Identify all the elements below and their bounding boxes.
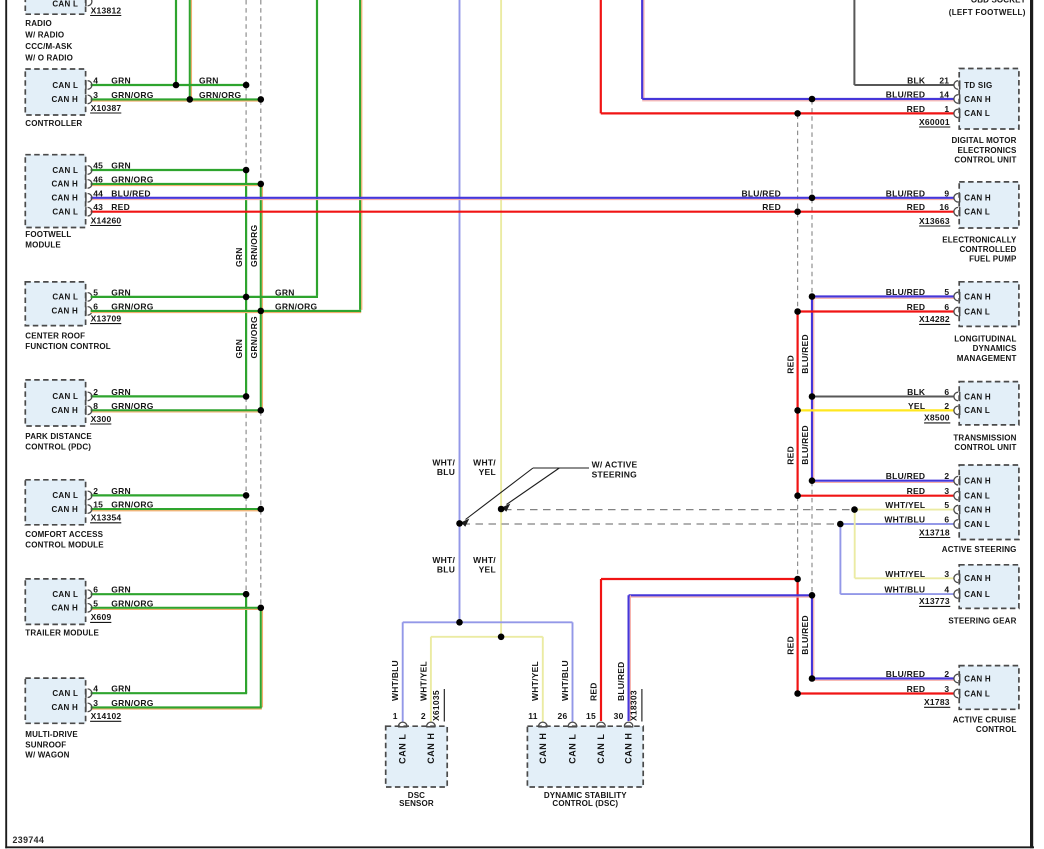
svg-text:6: 6	[944, 515, 949, 525]
junction trailer CAN L / GRN bus	[243, 591, 250, 598]
wire GRN/ORG bus solid centerroof-pdc	[260, 311, 262, 410]
junction WHT/YEL DSC branch	[498, 634, 505, 641]
CONTROLLER pin 3 GRN/ORG wire	[91, 98, 261, 100]
module COMFORT ACCESS CONTROL MODULE box	[25, 480, 85, 525]
module CONTROLLER box	[25, 69, 85, 115]
svg-text:GRN/ORG: GRN/ORG	[111, 90, 154, 100]
svg-text:3: 3	[944, 486, 949, 496]
svg-text:3: 3	[93, 90, 98, 100]
wire WHT/BLU vertical from top	[459, 0, 461, 622]
DYNAMIC STABILITY CONTROL (DSC) pin 11	[539, 722, 548, 726]
svg-text:6: 6	[944, 302, 949, 312]
svg-text:239744: 239744	[13, 835, 45, 845]
svg-text:GRN: GRN	[111, 486, 131, 496]
svg-text:SUNROOF: SUNROOF	[25, 740, 66, 749]
svg-text:CONTROL: CONTROL	[976, 725, 1017, 734]
wire BLK vertical from OBD socket	[853, 0, 855, 85]
junction WHT/BLU DSC branch	[456, 619, 463, 626]
svg-text:DIGITAL MOTOR: DIGITAL MOTOR	[951, 136, 1016, 145]
svg-text:CONTROL (PDC): CONTROL (PDC)	[25, 442, 91, 451]
svg-text:CAN L: CAN L	[568, 734, 578, 764]
wire GRN bus dashed pdc-comfort	[245, 397, 247, 494]
svg-text:4: 4	[93, 76, 98, 86]
junction BLU/RED corner active cruise	[809, 675, 816, 682]
svg-text:CAN H: CAN H	[52, 604, 79, 613]
svg-text:RADIO: RADIO	[25, 19, 52, 28]
svg-text:44: 44	[93, 188, 103, 198]
wire GRN vertical top to center roof CAN L	[316, 0, 318, 296]
wire GRN/ORG vertical top to center roof CAN H	[359, 0, 361, 310]
svg-text:BLU/RED: BLU/RED	[800, 615, 810, 655]
svg-text:X61035: X61035	[431, 690, 441, 721]
svg-text:3: 3	[944, 684, 949, 694]
junction active steering CAN H / BLU-RED bus	[809, 477, 816, 484]
svg-text:CAN H: CAN H	[52, 406, 79, 415]
MULTI-DRIVE SUNROOF pin 4 GRN wire	[91, 692, 248, 694]
svg-text:FOOTWELL: FOOTWELL	[25, 230, 71, 239]
wire RED vertical from top to DME CAN L	[600, 0, 602, 113]
MULTI-DRIVE SUNROOF pin 3 GRN/ORG wire	[91, 706, 262, 708]
svg-text:GRN/ORG: GRN/ORG	[199, 90, 242, 100]
svg-text:GRN: GRN	[234, 247, 244, 267]
svg-text:CONTROL UNIT: CONTROL UNIT	[954, 156, 1016, 165]
wire GRN bus dashed segment controller-footwell	[245, 86, 247, 169]
module DIGITAL MOTOR ELECTRONICS CONTROL UNIT box	[959, 69, 1019, 130]
wire GRN/ORG bus solid trailer-sunroof	[260, 608, 262, 708]
svg-text:CONTROLLER: CONTROLLER	[25, 119, 82, 128]
DSC SENSOR pin 2	[427, 722, 436, 726]
svg-text:GRN/ORG: GRN/ORG	[111, 174, 154, 184]
svg-text:43: 43	[93, 202, 103, 212]
DIGITAL MOTOR ELECTRONICS CONTROL UNIT pin 1 RED wire end	[954, 109, 958, 118]
module FOOTWELL MODULE box	[25, 155, 85, 228]
svg-text:GRN: GRN	[111, 76, 131, 86]
page border bottom	[5, 846, 1034, 848]
svg-text:CAN L: CAN L	[52, 392, 78, 401]
svg-text:ACTIVE CRUISE: ACTIVE CRUISE	[953, 715, 1017, 724]
wire GRN vertical from radio to controller CAN L	[175, 0, 177, 85]
svg-text:BLU: BLU	[437, 564, 455, 574]
svg-text:CAN H: CAN H	[52, 95, 79, 104]
svg-text:CAN L: CAN L	[964, 590, 990, 599]
svg-text:WHT/BLU: WHT/BLU	[884, 585, 925, 595]
wire WHT/YEL dashed branch to active steering	[504, 509, 852, 511]
svg-text:WHT/BLU: WHT/BLU	[884, 515, 925, 525]
svg-text:RED: RED	[907, 486, 926, 496]
page border right	[1030, 0, 1033, 848]
junction controller CAN H / GRN-ORG bus	[258, 96, 265, 103]
svg-text:BLK: BLK	[907, 76, 926, 86]
svg-text:30: 30	[614, 711, 624, 721]
wire GRN bus solid footwell-centerroof	[245, 170, 247, 297]
svg-text:WHT/YEL: WHT/YEL	[885, 500, 925, 510]
junction center roof CAN L / GRN bus	[243, 294, 250, 301]
wire BLU/RED bus dashed fuelpump-LDM	[811, 199, 813, 296]
svg-text:X13354: X13354	[91, 513, 122, 523]
svg-text:1: 1	[944, 104, 949, 114]
module MULTI-DRIVE SUNROOF box	[25, 678, 85, 723]
RADIO CAN L pin	[88, 0, 92, 6]
junction active steering WHT/BLU tap	[837, 521, 844, 528]
svg-text:X1783: X1783	[924, 697, 950, 707]
svg-text:BLU/RED: BLU/RED	[886, 90, 926, 100]
svg-text:CAN L: CAN L	[964, 520, 990, 529]
svg-text:2: 2	[944, 401, 949, 411]
svg-text:GRN/ORG: GRN/ORG	[249, 225, 259, 268]
svg-text:MANAGEMENT: MANAGEMENT	[957, 354, 1017, 363]
CENTER ROOF FUNCTION CONTROL pin 6 GRN/ORG wire	[88, 307, 92, 316]
TRAILER MODULE pin 5 GRN/ORG wire	[91, 607, 261, 609]
svg-text:CAN L: CAN L	[52, 689, 78, 698]
svg-text:FUNCTION CONTROL: FUNCTION CONTROL	[25, 342, 111, 351]
ACTIVE STEERING pin 5 WHT/YEL wire end	[954, 505, 958, 514]
svg-text:WHT/: WHT/	[432, 555, 455, 565]
TRANSMISSION CONTROL UNIT pin 2 YEL wire end	[954, 406, 958, 415]
svg-text:CAN L: CAN L	[52, 590, 78, 599]
wire GRN/ORG bus dashed segment top	[260, 0, 262, 98]
module RADIO box (partially cut at top)	[25, 0, 85, 14]
svg-text:GRN/ORG: GRN/ORG	[111, 598, 154, 608]
junction controller CAN H / radio	[187, 96, 194, 103]
svg-text:WHT/: WHT/	[432, 457, 455, 467]
svg-text:CAN L: CAN L	[964, 689, 990, 698]
svg-text:CAN L: CAN L	[398, 734, 408, 764]
wire GRN/ORG bus dashed controller-footwell	[260, 100, 262, 182]
junction active steering CAN L / RED bus	[794, 492, 801, 499]
svg-text:RED: RED	[907, 684, 926, 694]
wire GRN bus dashed segment top	[245, 0, 247, 84]
svg-text:CAN H: CAN H	[52, 307, 79, 316]
wire WHT/BLU solid to active steering pin 6	[840, 523, 954, 525]
svg-text:CAN L: CAN L	[52, 81, 78, 90]
annotation W/ ACTIVE STEERING leader lines	[462, 468, 590, 526]
wire GRN bus solid trailer-sunroof	[245, 594, 247, 693]
CENTER ROOF FUNCTION CONTROL pin 5 GRN wire	[88, 293, 92, 302]
svg-text:WHT/: WHT/	[473, 457, 496, 467]
wire RED horizontal to DME CAN L	[601, 112, 954, 114]
junction WHT/BLU active steering tap	[456, 520, 463, 527]
svg-text:15: 15	[586, 711, 596, 721]
FOOTWELL MODULE pin 45 GRN wire	[91, 169, 247, 171]
wire GRN bus solid centerroof-pdc	[245, 297, 247, 397]
svg-text:RED: RED	[907, 202, 926, 212]
svg-text:5: 5	[944, 287, 949, 297]
svg-text:CAN L: CAN L	[52, 293, 78, 302]
svg-text:ELECTRONICALLY: ELECTRONICALLY	[942, 235, 1017, 244]
FOOTWELL MODULE pin 44 BLU/RED wire	[91, 197, 955, 199]
module ACTIVE CRUISE CONTROL box	[959, 666, 1019, 710]
svg-text:GRN: GRN	[275, 287, 295, 297]
svg-text:MODULE: MODULE	[25, 241, 61, 250]
svg-text:X13718: X13718	[919, 527, 950, 537]
module PARK DISTANCE CONTROL (PDC) box	[25, 380, 85, 426]
svg-text:YEL: YEL	[479, 467, 496, 477]
svg-text:GRN: GRN	[111, 585, 131, 595]
TRANSMISSION CONTROL UNIT pin 6 BLK wire end	[954, 392, 958, 401]
wire GRN/ORG bus solid footwell-centerroof	[260, 184, 262, 311]
wire GRN/ORG vertical from radio to controller CAN H	[189, 0, 191, 99]
svg-text:X10387: X10387	[91, 103, 122, 113]
svg-text:PARK DISTANCE: PARK DISTANCE	[25, 432, 92, 441]
wire WHT/YEL branch to DSC sensor pin 2 and DSC pin 11	[431, 636, 543, 638]
svg-text:CAN L: CAN L	[964, 307, 990, 316]
junction DME CAN H / BLU-RED bus	[809, 96, 816, 103]
junction LDM CAN L / RED bus	[794, 308, 801, 315]
svg-text:(LEFT FOOTWELL): (LEFT FOOTWELL)	[949, 8, 1026, 17]
svg-text:GRN: GRN	[111, 684, 131, 694]
junction controller CAN L / GRN bus	[243, 82, 250, 89]
svg-text:CAN L: CAN L	[52, 491, 78, 500]
svg-text:WHT/BLU: WHT/BLU	[560, 660, 570, 701]
wire BLU/RED horizontal to DME CAN H	[642, 98, 954, 100]
svg-text:CAN L: CAN L	[596, 734, 606, 764]
svg-text:3: 3	[944, 569, 949, 579]
svg-text:BLK: BLK	[907, 387, 926, 397]
svg-text:X13709: X13709	[91, 313, 122, 323]
module STEERING GEAR box	[959, 565, 1019, 609]
svg-text:TD SIG: TD SIG	[964, 81, 992, 90]
svg-text:ACTIVE STEERING: ACTIVE STEERING	[942, 545, 1017, 554]
wire GRN/ORG bus dashed comfort-trailer	[260, 510, 262, 607]
svg-text:CAN H: CAN H	[964, 95, 991, 104]
junction controller CAN L / radio	[173, 82, 180, 89]
svg-text:WHT/YEL: WHT/YEL	[530, 661, 540, 701]
svg-text:CONTROL (DSC): CONTROL (DSC)	[552, 799, 618, 808]
svg-text:FUEL PUMP: FUEL PUMP	[969, 255, 1017, 264]
svg-text:16: 16	[939, 202, 949, 212]
svg-text:RED: RED	[111, 202, 130, 212]
svg-text:CAN H: CAN H	[52, 180, 79, 189]
svg-text:X18303: X18303	[628, 690, 638, 721]
ELECTRONICALLY CONTROLLED FUEL PUMP pin 9 BLU/RED wire end	[954, 194, 958, 203]
junction center roof CAN H / GRN-ORG bus	[258, 308, 265, 315]
TRAILER MODULE pin 6 GRN wire	[91, 593, 247, 595]
svg-text:DYNAMICS: DYNAMICS	[973, 344, 1017, 353]
wire BLU/RED bus dashed activesteering-lower	[811, 482, 813, 595]
svg-text:RED: RED	[762, 202, 781, 212]
svg-text:RED: RED	[786, 636, 796, 655]
PARK DISTANCE CONTROL (PDC) pin 8 GRN/ORG wire	[91, 409, 261, 411]
wire RED bus solid LDM-TCU	[796, 312, 798, 411]
wire RED to LDM CAN L	[798, 310, 955, 312]
svg-text:RED: RED	[907, 104, 926, 114]
junction footwell CAN L / GRN bus	[243, 167, 250, 174]
svg-text:2: 2	[944, 669, 949, 679]
wire BLU/RED bus dashed DME-fuelpump	[811, 100, 813, 197]
svg-text:8: 8	[93, 401, 98, 411]
svg-text:GRN: GRN	[111, 387, 131, 397]
svg-text:W/ O RADIO: W/ O RADIO	[25, 54, 73, 63]
svg-text:CAN H: CAN H	[964, 477, 991, 486]
svg-text:CAN L: CAN L	[964, 208, 990, 217]
CONTROLLER pin 4 GRN wire	[91, 84, 247, 86]
svg-text:BLU/RED: BLU/RED	[886, 669, 926, 679]
junction trailer CAN H / GRN-ORG bus	[258, 605, 265, 612]
svg-text:2: 2	[93, 486, 98, 496]
svg-text:W/ RADIO: W/ RADIO	[25, 31, 64, 40]
center roof CAN H wire	[91, 310, 261, 312]
svg-text:BLU/RED: BLU/RED	[800, 334, 810, 374]
junction BLU/RED bus to DSC feed	[809, 592, 816, 599]
svg-text:3: 3	[93, 698, 98, 708]
wire YEL to TCU CAN L	[798, 409, 955, 411]
svg-text:CAN L: CAN L	[52, 208, 78, 217]
svg-text:CAN H: CAN H	[52, 703, 79, 712]
wire RED horizontal to DSC	[601, 578, 798, 580]
svg-text:X300: X300	[91, 414, 112, 424]
svg-text:GRN/ORG: GRN/ORG	[111, 698, 154, 708]
svg-text:CAN L: CAN L	[964, 492, 990, 501]
svg-text:MULTI-DRIVE: MULTI-DRIVE	[25, 730, 78, 739]
svg-text:RED: RED	[786, 446, 796, 465]
wire WHT/YEL vertical to steering gear	[854, 510, 856, 579]
svg-text:COMFORT ACCESS: COMFORT ACCESS	[25, 530, 103, 539]
svg-text:GRN: GRN	[111, 161, 131, 171]
svg-text:2: 2	[944, 471, 949, 481]
svg-text:GRN/ORG: GRN/ORG	[111, 500, 154, 510]
COMFORT ACCESS CONTROL MODULE pin 2 GRN wire	[91, 494, 247, 496]
DIGITAL MOTOR ELECTRONICS CONTROL UNIT pin 21 BLK wire end	[954, 81, 958, 90]
junction WHT/YEL active steering tap	[498, 506, 505, 513]
page border left	[5, 0, 7, 848]
svg-text:RED: RED	[588, 682, 598, 701]
svg-text:CAN H: CAN H	[964, 392, 991, 401]
ACTIVE CRUISE CONTROL pin 2 BLU/RED wire end	[954, 674, 958, 683]
svg-text:CAN H: CAN H	[964, 674, 991, 683]
svg-text:BLU: BLU	[437, 467, 455, 477]
junction PDC CAN L / GRN bus	[243, 393, 250, 400]
junction active steering WHT/YEL tap	[851, 506, 858, 513]
svg-text:45: 45	[93, 161, 103, 171]
svg-text:CAN H: CAN H	[964, 574, 991, 583]
svg-text:X14260: X14260	[91, 215, 122, 225]
svg-text:RED: RED	[786, 355, 796, 374]
junction DME CAN L / RED bus	[794, 110, 801, 117]
module DYNAMIC STABILITY CONTROL (DSC) box	[527, 726, 643, 787]
svg-text:W/ ACTIVE: W/ ACTIVE	[592, 459, 638, 469]
svg-text:11: 11	[528, 711, 538, 721]
junction comfort access CAN H / GRN-ORG bus	[258, 506, 265, 513]
svg-text:CAN H: CAN H	[964, 505, 991, 514]
wire RED bus dashed fuelpump-LDM	[797, 213, 799, 311]
svg-text:BLU/RED: BLU/RED	[800, 425, 810, 465]
COMFORT ACCESS CONTROL MODULE pin 15 GRN/ORG wire	[91, 508, 261, 510]
FOOTWELL MODULE pin 43 RED wire	[91, 211, 955, 213]
svg-text:YEL: YEL	[908, 401, 925, 411]
svg-text:WHT/YEL: WHT/YEL	[885, 569, 925, 579]
wire BLU/RED bus solid TCU-activesteering	[811, 397, 813, 481]
svg-text:TRAILER MODULE: TRAILER MODULE	[25, 628, 99, 637]
module ACTIVE STEERING box	[959, 465, 1019, 540]
ELECTRONICALLY CONTROLLED FUEL PUMP pin 16 RED wire end	[954, 207, 958, 216]
svg-text:CAN H: CAN H	[964, 292, 991, 301]
DSC SENSOR pin 1	[398, 722, 407, 726]
wire RED bus solid TCU-activesteering	[796, 410, 798, 495]
svg-text:2: 2	[93, 387, 98, 397]
LONGITUDINAL DYNAMICS MANAGEMENT pin 6 RED wire end	[954, 307, 958, 316]
svg-text:BLU/RED: BLU/RED	[886, 188, 926, 198]
svg-text:W/ WAGON: W/ WAGON	[25, 751, 69, 760]
svg-text:4: 4	[944, 585, 949, 595]
svg-text:LONGITUDINAL: LONGITUDINAL	[954, 334, 1016, 343]
svg-text:X60001: X60001	[919, 117, 950, 127]
module TRANSMISSION CONTROL UNIT box	[959, 382, 1019, 425]
svg-text:CAN L: CAN L	[964, 406, 990, 415]
svg-text:BLU/RED: BLU/RED	[886, 287, 926, 297]
wire WHT/BLU branch to DSC sensor pin 1 and DSC pin 26	[403, 621, 573, 623]
wire RED to active steering CAN L	[798, 495, 955, 497]
svg-text:CAN H: CAN H	[426, 733, 436, 764]
svg-text:X13663: X13663	[919, 216, 950, 226]
svg-text:6: 6	[93, 585, 98, 595]
svg-text:4: 4	[93, 684, 98, 694]
wire BLU/RED bus solid to active cruise	[811, 595, 813, 678]
svg-text:21: 21	[939, 76, 949, 86]
svg-text:CAN H: CAN H	[624, 733, 634, 764]
svg-text:X13773: X13773	[919, 596, 950, 606]
svg-text:X13812: X13812	[91, 5, 122, 15]
module DSC SENSOR box	[386, 726, 448, 787]
svg-text:SENSOR: SENSOR	[399, 799, 434, 808]
wire WHT/BLU vertical to steering gear	[839, 524, 841, 594]
svg-text:X8500: X8500	[924, 413, 950, 423]
svg-text:CAN H: CAN H	[52, 505, 79, 514]
svg-text:GRN: GRN	[234, 339, 244, 359]
wire BLU/RED vertical from top to DME CAN H	[641, 0, 643, 99]
center roof CAN L wire	[91, 296, 247, 298]
svg-text:GRN/ORG: GRN/ORG	[249, 316, 259, 359]
ACTIVE STEERING pin 2 BLU/RED wire end	[954, 476, 958, 485]
svg-text:X14102: X14102	[91, 711, 122, 721]
DIGITAL MOTOR ELECTRONICS CONTROL UNIT pin 14 BLU/RED wire end	[954, 95, 958, 104]
junction fuel pump CAN H / BLU-RED bus	[809, 195, 816, 202]
svg-text:CAN L: CAN L	[52, 0, 78, 8]
STEERING GEAR pin 4 WHT/BLU wire end	[954, 590, 958, 599]
svg-text:15: 15	[93, 500, 103, 510]
module LONGITUDINAL DYNAMICS MANAGEMENT box	[959, 282, 1019, 327]
svg-text:6: 6	[944, 387, 949, 397]
STEERING GEAR pin 3 WHT/YEL wire end	[954, 574, 958, 583]
svg-text:OBD SOCKET: OBD SOCKET	[971, 0, 1026, 5]
junction fuel pump CAN L / RED bus	[794, 208, 801, 215]
svg-text:STEERING GEAR: STEERING GEAR	[948, 616, 1016, 625]
DYNAMIC STABILITY CONTROL (DSC) pin 15	[597, 722, 606, 726]
svg-text:1: 1	[393, 711, 398, 721]
svg-text:9: 9	[944, 188, 949, 198]
svg-text:WHT/: WHT/	[473, 555, 496, 565]
ACTIVE CRUISE CONTROL pin 3 RED wire end	[954, 689, 958, 698]
svg-text:26: 26	[558, 711, 568, 721]
svg-text:BLU/RED: BLU/RED	[616, 661, 626, 701]
PARK DISTANCE CONTROL (PDC) pin 2 GRN wire	[91, 395, 247, 397]
svg-text:RED: RED	[907, 302, 926, 312]
junction RED bus to DSC feed	[794, 576, 801, 583]
svg-text:14: 14	[939, 90, 949, 100]
svg-text:BLU/RED: BLU/RED	[886, 471, 926, 481]
svg-text:TRANSMISSION: TRANSMISSION	[953, 434, 1016, 443]
wire BLU/RED horizontal to DSC	[629, 594, 812, 596]
DYNAMIC STABILITY CONTROL (DSC) pin 30	[624, 722, 633, 726]
svg-text:CENTER ROOF: CENTER ROOF	[25, 332, 85, 341]
svg-text:X14282: X14282	[919, 314, 950, 324]
junction RED corner active cruise	[794, 690, 801, 697]
svg-text:CCC/M-ASK: CCC/M-ASK	[25, 42, 72, 51]
wire BLU/RED to LDM CAN H	[812, 295, 954, 297]
svg-text:CONTROL MODULE: CONTROL MODULE	[25, 540, 104, 549]
svg-text:5: 5	[944, 500, 949, 510]
svg-text:STEERING: STEERING	[592, 470, 638, 480]
wire WHT/YEL vertical from top	[500, 0, 502, 637]
